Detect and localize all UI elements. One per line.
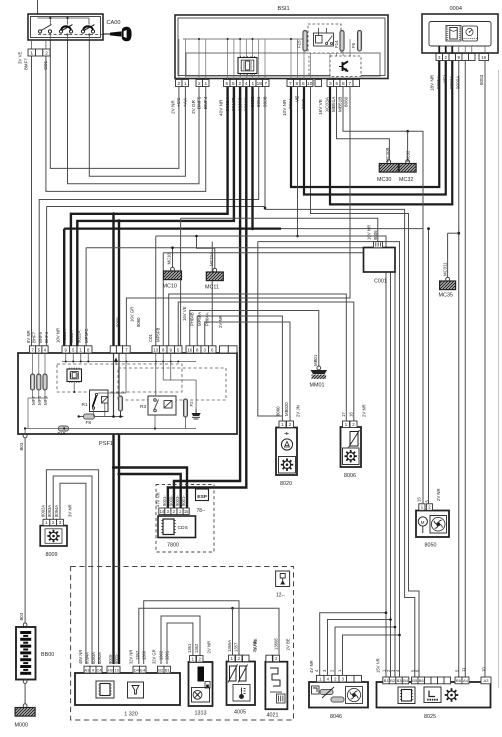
svg-text:1: 1 — [184, 81, 187, 86]
junction 9008 — [264, 207, 267, 210]
svg-text:40V NR: 40V NR — [218, 99, 223, 116]
svg-text:5: 5 — [232, 81, 235, 86]
BSI1 inner band — [186, 53, 380, 76]
svg-text:9000A: 9000A — [456, 75, 461, 89]
wire 9001- PSF1 to 1320 (heavy) — [118, 434, 120, 664]
wire 8006 pin1 to PSF1 pin9 — [169, 294, 347, 421]
svg-text:8060: 8060 — [275, 406, 280, 416]
svg-text:8052: 8052 — [250, 96, 255, 107]
svg-text:2: 2 — [198, 81, 201, 86]
svg-text:MB01: MB01 — [313, 354, 318, 366]
svg-text:17: 17 — [341, 412, 346, 417]
wire 8046 pin3 feed — [343, 635, 400, 677]
wire drop 4005 pin1 — [232, 608, 234, 655]
svg-text:A3: A3 — [85, 667, 91, 672]
ground symbol inside PSF1 — [192, 413, 201, 416]
svg-text:MC10: MC10 — [167, 252, 172, 264]
pins 0004 — [436, 54, 443, 61]
wire BMF4 CA00 pin2 to BSI1 — [46, 56, 206, 191]
svg-text:C001: C001 — [374, 279, 387, 285]
wire drop PSF1 — [162, 253, 164, 346]
svg-text:BMF7: BMF7 — [24, 58, 29, 70]
svg-text:1366A: 1366A — [227, 640, 232, 652]
pins 8025 — [383, 677, 390, 684]
fuse F18 — [59, 426, 69, 431]
junction 4005 pin1 — [231, 607, 234, 610]
wire PSF1 pin6r riser — [211, 242, 213, 346]
wire 9000- branch to 7800 pin15 (heavy) — [114, 468, 188, 509]
junction 9001- branch — [117, 472, 120, 475]
svg-text:MF7: MF7 — [31, 396, 36, 405]
svg-text:8053: 8053 — [479, 74, 484, 85]
svg-text:PSF1: PSF1 — [99, 441, 113, 447]
svg-text:MC10: MC10 — [163, 284, 177, 290]
wire 9008 BSI1 to 8025 pinB5 — [265, 87, 415, 677]
key symbol — [103, 27, 132, 42]
svg-text:2V NR: 2V NR — [207, 641, 212, 654]
svg-text:E4: E4 — [140, 667, 146, 672]
svg-text:R3: R3 — [140, 404, 146, 410]
IC icon 7800 — [163, 519, 174, 535]
svg-text:16V VE: 16V VE — [182, 306, 187, 321]
gauge icon 0004 — [446, 26, 461, 42]
svg-text:8006: 8006 — [344, 473, 356, 479]
svg-text:9000-: 9000- — [108, 653, 113, 664]
box 0004 inner — [429, 22, 491, 47]
box BSI1 inner — [178, 18, 385, 76]
svg-text:M: M — [421, 520, 425, 525]
pins 1320 — [84, 666, 90, 673]
svg-text:8060: 8060 — [136, 317, 141, 327]
pins 1313 — [190, 656, 197, 663]
IC icon 1320 — [96, 681, 114, 698]
relay box BSI1 — [308, 24, 341, 53]
wire BMF7 CA00 pin1 to PSF1 pin7 — [31, 56, 33, 346]
wire grounds line PSF1 pin8 to 8025 pin3 — [86, 248, 395, 677]
wire 8046 pin2 feed — [335, 627, 395, 677]
svg-text:2: 2 — [238, 81, 241, 86]
svg-text:1 320: 1 320 — [124, 712, 138, 718]
svg-text:1357: 1357 — [234, 642, 239, 652]
svg-text:MF5: MF5 — [37, 396, 42, 405]
stub pin1 — [31, 40, 33, 49]
direction arrow — [114, 358, 118, 363]
wire MB020 8020 pin2 to PSF1 — [205, 322, 290, 421]
svg-text:7: 7 — [264, 81, 267, 86]
internal 9000/9001 path with fuse — [113, 353, 115, 417]
svg-text:MB020: MB020 — [284, 402, 289, 416]
wire 1362 1320 to 1313 pin2 — [161, 616, 200, 664]
svg-text:ESP: ESP — [197, 494, 208, 500]
svg-text:10V NR: 10V NR — [55, 328, 60, 343]
svg-text:MF4: MF4 — [43, 396, 48, 405]
svg-text:9000-: 9000- — [168, 495, 173, 506]
svg-text:1357: 1357 — [135, 650, 140, 660]
box CA00 outer — [28, 14, 103, 40]
IC icon 8025 — [398, 687, 415, 704]
svg-text:8025: 8025 — [424, 714, 436, 720]
wire 9000C BSI1 to 7800 pin2 (heavy) — [174, 87, 240, 508]
svg-text:MB51B: MB51B — [337, 97, 342, 112]
svg-text:48V NR: 48V NR — [78, 650, 83, 664]
svg-text:32V GR: 32V GR — [152, 649, 157, 664]
svg-text:F14: F14 — [334, 40, 339, 48]
wire CA00 supply from top — [37, 0, 39, 14]
wire XC03A BSI1 to 0004 (heavy) — [330, 61, 452, 205]
junction MC35 — [457, 232, 460, 235]
svg-text:3V NR: 3V NR — [68, 504, 73, 517]
svg-text:9013A: 9013A — [69, 330, 74, 343]
svg-text:B3: B3 — [397, 678, 403, 683]
svg-text:2: 2 — [177, 81, 180, 86]
svg-text:1: 1 — [30, 50, 33, 56]
wire 8006 pin2 to PSF1 pin5r — [178, 302, 354, 421]
svg-text:6: 6 — [225, 81, 228, 86]
pins PSF1 — [30, 346, 36, 353]
junction 9000 — [112, 212, 115, 215]
svg-text:9001-: 9001- — [181, 495, 186, 506]
wire 9000- PSF1 to 1320 (heavy) — [112, 434, 114, 664]
svg-text:MC35: MC35 — [439, 293, 453, 299]
svg-text:9006: 9006 — [373, 230, 378, 240]
svg-text:9003-: 9003- — [175, 495, 180, 506]
svg-text:12--: 12-- — [276, 593, 285, 599]
svg-text:CA00: CA00 — [107, 20, 121, 26]
wire 9005 BSI1 to 0004 (heavy) — [304, 61, 446, 195]
svg-text:B9: B9 — [456, 678, 462, 683]
box BSI1 outer — [175, 15, 388, 79]
svg-text:9005: 9005 — [301, 98, 306, 109]
bulb icon 1320 — [128, 682, 144, 698]
svg-text:+AA: +AA — [183, 97, 188, 107]
svg-text:B4: B4 — [403, 678, 409, 683]
wire 9000A 0004 to 8025 pinB9 — [458, 61, 460, 678]
svg-text:BSI1: BSI1 — [278, 6, 290, 12]
svg-text:1362: 1362 — [194, 643, 199, 653]
svg-text:18: 18 — [257, 81, 263, 86]
svg-text:2V NR: 2V NR — [218, 315, 223, 328]
svg-text:B6: B6 — [419, 678, 425, 683]
pins CA00 — [28, 49, 36, 56]
svg-text:MP5FB: MP5FB — [155, 328, 160, 342]
connector icon BSI1 — [238, 58, 257, 74]
wire 8093A 8009 to 1320 — [53, 476, 92, 664]
junction 8052 — [251, 227, 254, 230]
svg-text:9012A: 9012A — [77, 330, 82, 343]
svg-text:2V NR: 2V NR — [171, 100, 176, 114]
svg-text:8046: 8046 — [330, 714, 342, 720]
terminal PSF1 B03 — [23, 434, 27, 438]
pins 8009 — [43, 519, 50, 525]
wire MC10 riser — [172, 248, 174, 268]
junction 9001 — [117, 219, 120, 222]
wire +CC CA00 to BSI1 — [50, 40, 179, 168]
relay R1 — [90, 390, 109, 412]
pins 8046 — [317, 675, 325, 682]
svg-text:10: 10 — [115, 667, 120, 672]
svg-text:13668: 13668 — [273, 638, 278, 650]
svg-text:C01: C01 — [148, 334, 153, 342]
connector icon PSF1 — [67, 369, 82, 382]
stub pin2 — [45, 40, 47, 49]
svg-text:B5: B5 — [412, 678, 418, 683]
svg-text:MC311: MC311 — [443, 262, 448, 276]
svg-text:M000: M000 — [15, 723, 29, 729]
wire BMF5 CA00 to BSI1 — [68, 40, 200, 184]
junction 9000C — [239, 227, 242, 230]
svg-text:F6: F6 — [351, 42, 356, 48]
svg-text:2V NR: 2V NR — [362, 404, 367, 417]
svg-text:BHF4: BHF4 — [44, 331, 49, 343]
wire MC11A riser — [197, 236, 215, 269]
wire drop to PSF1 pin13 — [155, 236, 157, 346]
switch contact 1 — [38, 25, 51, 34]
wire 9000 thin continuation — [281, 228, 423, 230]
PSF1 internal wires — [25, 428, 196, 430]
svg-text:R1: R1 — [82, 402, 88, 408]
transistor box BSI1 — [330, 56, 361, 77]
svg-text:2: 2 — [45, 50, 48, 56]
svg-text:BHF7: BHF7 — [32, 331, 37, 343]
svg-text:8009: 8009 — [46, 552, 58, 558]
relay R3 — [148, 396, 176, 415]
svg-text:MC30B: MC30B — [385, 148, 390, 162]
svg-text:9012B: 9012B — [231, 97, 236, 111]
svg-text:2V GR: 2V GR — [191, 99, 196, 114]
svg-text:2V BE: 2V BE — [285, 638, 290, 650]
relay icon 8025 — [424, 687, 441, 703]
wire 8050 pin2 riser — [428, 229, 430, 504]
wire +AA CA00 to BSI1 — [89, 40, 185, 176]
svg-text:3V VE: 3V VE — [18, 51, 23, 64]
wire 9001- branch to 7800 pin1 (heavy) — [119, 474, 181, 508]
svg-text:15V NR: 15V NR — [376, 658, 381, 673]
stub switch3 — [88, 34, 90, 41]
svg-text:B03: B03 — [19, 612, 24, 620]
svg-text:BHF5: BHF5 — [38, 331, 43, 343]
svg-text:MP5FA: MP5FA — [197, 312, 202, 326]
svg-text:B2: B2 — [390, 678, 396, 683]
BSI1 internal bus — [183, 38, 303, 40]
wire 8094A 8009 to 1320 — [60, 483, 86, 664]
wire 9008 branch to PSF1 pin4 — [47, 206, 265, 208]
wire 8046 pin4 feed — [328, 620, 391, 678]
svg-text:8051: 8051 — [256, 96, 261, 107]
svg-text:9004: 9004 — [288, 98, 293, 109]
svg-text:6: 6 — [335, 81, 338, 86]
wire 8051 BSI1 to PSF1 pin5 — [39, 87, 259, 346]
svg-text:2V NR: 2V NR — [436, 488, 441, 501]
svg-text:10: 10 — [481, 667, 486, 672]
svg-text:F2: F2 — [189, 401, 194, 407]
svg-text:16: 16 — [187, 347, 192, 352]
svg-text:9005A: 9005A — [436, 75, 441, 89]
svg-text:F18: F18 — [58, 431, 66, 436]
wire to 8025 pin4 — [258, 242, 400, 677]
pins 4005 — [229, 655, 236, 662]
svg-text:A4: A4 — [463, 678, 469, 683]
svg-text:1361: 1361 — [165, 650, 170, 660]
svg-text:1313: 1313 — [195, 711, 207, 717]
wire 9000- to PSF1 (heavy) — [112, 214, 114, 346]
svg-text:1: 1 — [251, 81, 254, 86]
junction MC10 — [171, 246, 174, 249]
switch contact 3 — [81, 25, 94, 34]
svg-text:A3: A3 — [484, 678, 490, 683]
wire PSF1 to 8025 pin2 — [163, 253, 390, 677]
junction MC11 — [195, 235, 198, 238]
svg-text:B03: B03 — [19, 442, 24, 450]
wire 9012B BSI1 to PSF1 (heavy) — [77, 87, 234, 346]
svg-text:F8: F8 — [86, 420, 92, 426]
svg-text:9001-: 9001- — [114, 653, 119, 664]
svg-text:11: 11 — [461, 667, 466, 672]
pins 7800 — [159, 508, 165, 515]
svg-text:B2: B2 — [158, 667, 164, 672]
svg-text:47V NR: 47V NR — [156, 492, 161, 507]
svg-text:XE1: XE1 — [443, 74, 448, 83]
svg-text:8020: 8020 — [280, 481, 292, 487]
wire MC311 drop to MC35 — [447, 233, 449, 277]
svg-text:1: 1 — [204, 81, 207, 86]
svg-text:6: 6 — [302, 81, 305, 86]
svg-text:MC32: MC32 — [399, 177, 413, 183]
svg-text:15: 15 — [417, 497, 422, 502]
svg-text:MC30: MC30 — [377, 177, 391, 183]
svg-text:C4: C4 — [96, 667, 102, 672]
svg-text:D4: D4 — [134, 667, 140, 672]
pins 4021 — [266, 655, 273, 662]
wire BHF4 drop to PSF1 pin4 — [46, 207, 48, 346]
svg-text:14: 14 — [159, 509, 164, 514]
PSF1 fuses MF7 MF5 MF4 — [31, 374, 35, 390]
svg-text:MC11: MC11 — [205, 285, 219, 291]
svg-text:7: 7 — [289, 81, 292, 86]
svg-text:1361: 1361 — [187, 643, 192, 653]
svg-text:8094A: 8094A — [85, 652, 90, 664]
wire MB01 MM01 to PSF1 — [190, 311, 319, 367]
svg-text:XC03A: XC03A — [325, 96, 330, 112]
box PSF1 — [18, 353, 237, 434]
wire 1366 1320 to 4021 — [139, 608, 279, 664]
svg-text:16: 16 — [481, 55, 486, 60]
svg-text:0004: 0004 — [450, 6, 462, 12]
wire drop PSF1 — [180, 218, 182, 345]
junction 8046-1 — [385, 611, 388, 614]
wire 8046 pin1 feed — [320, 613, 386, 677]
svg-text:1362: 1362 — [158, 650, 163, 660]
svg-text:8060: 8060 — [344, 96, 349, 107]
svg-text:16: 16 — [348, 412, 353, 417]
svg-text:VE: VE — [295, 96, 300, 102]
wire 9013A BSI1 to PSF1 (heavy) — [71, 87, 228, 346]
svg-text:9004A: 9004A — [449, 75, 454, 89]
svg-text:8: 8 — [295, 81, 298, 86]
svg-text:18V NR: 18V NR — [429, 74, 434, 91]
junction 9003 — [296, 235, 299, 238]
svg-text:+CC: +CC — [176, 97, 181, 107]
svg-text:9013A: 9013A — [225, 97, 230, 111]
svg-text:4021: 4021 — [267, 713, 279, 719]
svg-text:7800: 7800 — [167, 543, 179, 549]
junction 8046-4 — [389, 618, 392, 621]
junction MC32 — [406, 130, 409, 133]
wire 9001- to PSF1 (heavy) — [118, 221, 120, 346]
svg-text:8092A: 8092A — [40, 505, 45, 517]
fuse F15 — [303, 31, 307, 52]
wire 9004 BSI1 to 0004 (heavy) — [291, 61, 439, 188]
svg-text:8093A: 8093A — [91, 652, 96, 664]
svg-text:8093A: 8093A — [47, 505, 52, 517]
wire 9003 BSI1 drop — [297, 87, 299, 236]
wire 9000 long horizontal from PSF1 — [64, 228, 281, 230]
svg-text:9001-: 9001- — [162, 495, 167, 506]
svg-text:PH04B: PH04B — [190, 312, 195, 326]
svg-text:4005: 4005 — [234, 710, 246, 716]
fuse F2 — [183, 399, 187, 417]
svg-text:3: 3 — [329, 81, 332, 86]
wire MC35 link — [448, 232, 459, 234]
svg-text:78--: 78-- — [197, 508, 206, 514]
thermometer icon — [240, 688, 246, 699]
svg-text:BB00: BB00 — [41, 652, 54, 658]
wire 1357 1320 to 4005 pin2 — [144, 601, 239, 664]
mechanical link dashes — [38, 34, 103, 36]
svg-text:9001K: 9001K — [244, 97, 249, 111]
svg-text:B1: B1 — [165, 667, 171, 672]
svg-text:B1: B1 — [384, 678, 390, 683]
svg-text:9000C: 9000C — [237, 97, 242, 111]
wire drop to MC32 — [407, 131, 409, 160]
speedometer icon 0004 — [463, 26, 478, 41]
wire drop to PSF1 pin8 — [85, 248, 87, 346]
wire 8020 pin1 to PSF1 — [197, 316, 282, 421]
svg-text:7: 7 — [348, 81, 351, 86]
svg-text:PH04A: PH04A — [204, 312, 209, 326]
svg-text:MC32: MC32 — [405, 150, 410, 162]
fuse F14 — [340, 31, 344, 52]
svg-text:MM01: MM01 — [310, 383, 325, 389]
junction 9000- branch — [112, 466, 115, 469]
svg-text:MP5FC: MP5FC — [84, 328, 89, 343]
wire 9001K BSI1 to 7800 pin3 (heavy) — [168, 87, 246, 508]
svg-text:H9: H9 — [108, 667, 114, 672]
fuse F8 — [79, 416, 124, 418]
svg-text:XC03A: XC03A — [62, 329, 67, 343]
svg-text:MB51A: MB51A — [331, 96, 336, 112]
box 0004 outer — [422, 14, 498, 53]
svg-text:8094A: 8094A — [54, 505, 59, 517]
wire 9006 PSF1 to C001 — [181, 218, 378, 242]
svg-text:3V BE: 3V BE — [253, 638, 258, 650]
page edge artifact — [498, 70, 500, 688]
svg-text:8060: 8060 — [116, 317, 121, 327]
stub switch2 — [67, 34, 69, 41]
wire 8053 0004 to 8025 pinA3 — [484, 61, 486, 678]
wire 8092A 8009 to 1320 — [46, 470, 98, 664]
wire MB51A BSI1 to MC30 — [337, 87, 390, 161]
svg-text:15: 15 — [184, 509, 189, 514]
wire 8060 BSI1 to PSF1 — [126, 87, 350, 346]
wire BB00 to M000 — [24, 684, 26, 704]
wire B03 PSF1 to BB00 — [24, 438, 26, 624]
box CA00 inner — [31, 17, 101, 38]
svg-text:CD1: CD1 — [43, 60, 48, 70]
svg-text:10: 10 — [307, 81, 313, 86]
wire long PSF1 pin13 to 8025 pin1 — [156, 236, 386, 677]
junction 8046-3 — [398, 634, 401, 637]
svg-text:8V NR: 8V NR — [26, 330, 31, 343]
